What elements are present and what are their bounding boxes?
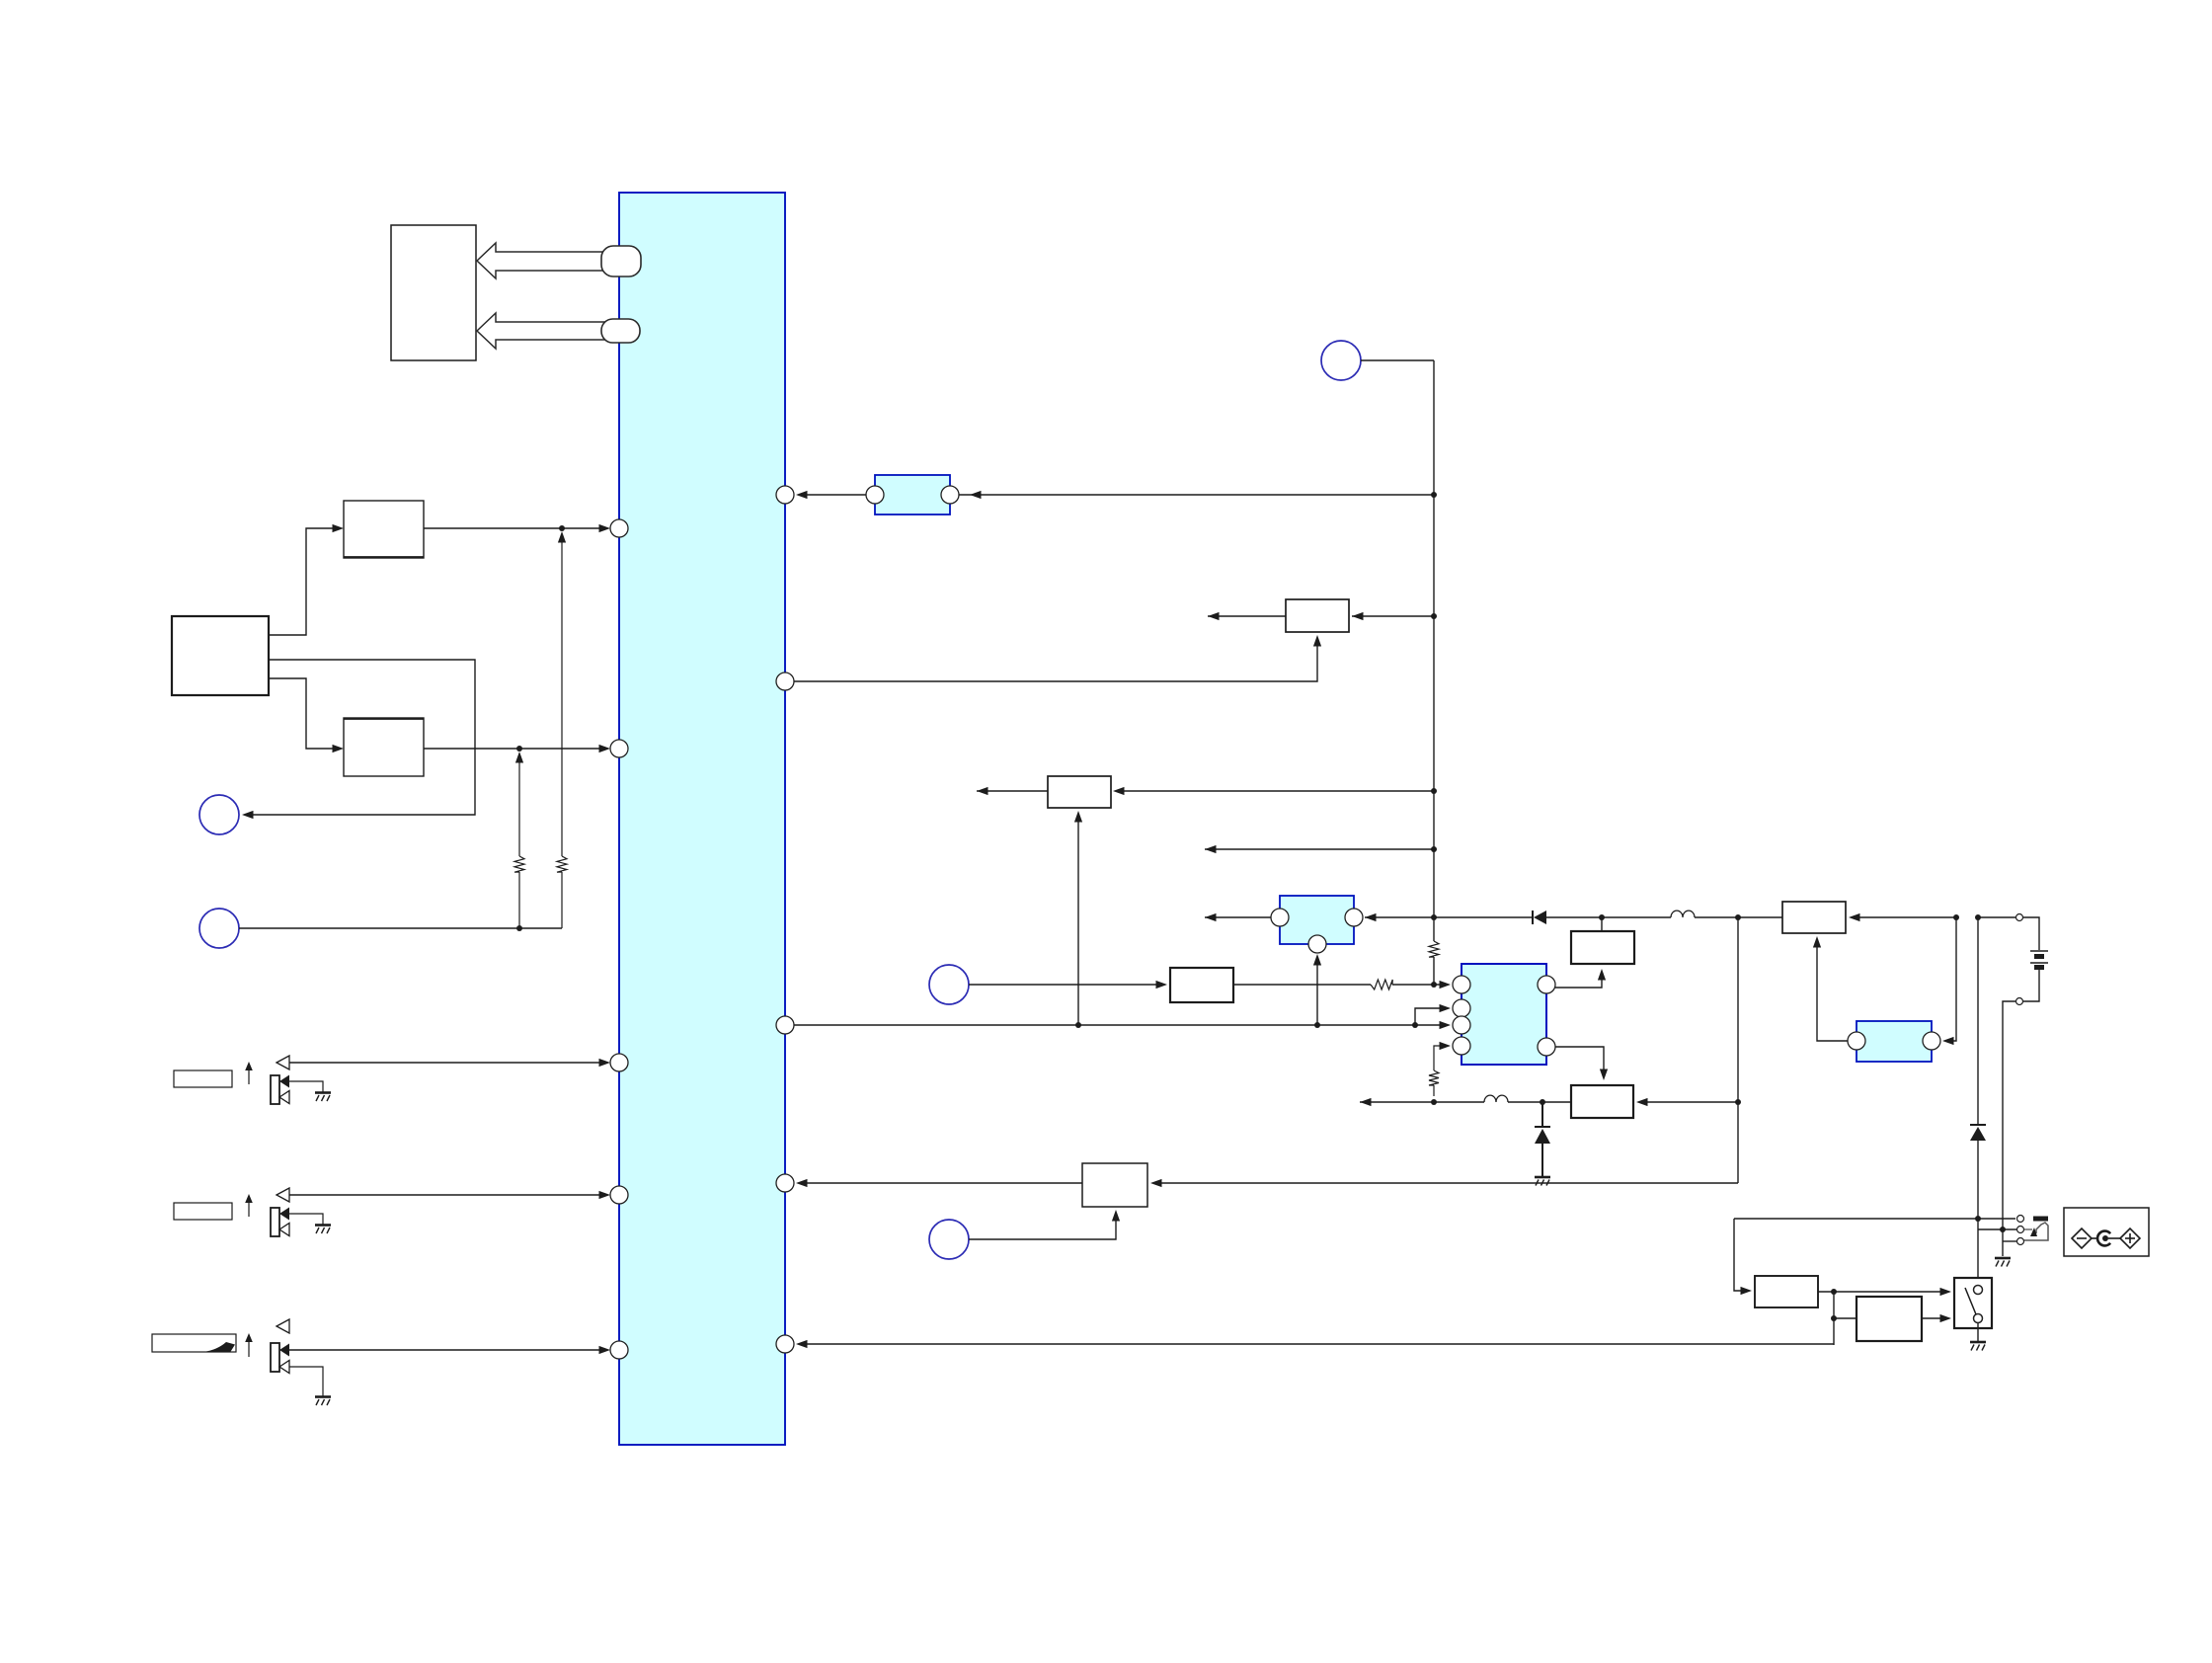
connector CN1 xyxy=(199,795,239,834)
box B10 (regulator) xyxy=(1782,902,1846,933)
IC left pin y=758 xyxy=(610,740,628,757)
wire B11 to switch xyxy=(1818,1291,1948,1293)
feed line to B7 xyxy=(1508,1101,1571,1103)
IC2 pin in3 xyxy=(1453,1016,1470,1034)
indicator box (speaker L label) xyxy=(174,1070,232,1087)
polarity plus diamond xyxy=(2120,1228,2140,1248)
hollow bus arrow (upper) xyxy=(477,243,614,278)
box B9 xyxy=(1082,1163,1147,1207)
node V2003/DC line xyxy=(1975,1216,1981,1222)
wire SP3 to ground xyxy=(289,1367,323,1396)
node trunk/B4 xyxy=(1431,613,1437,619)
X2 bottom pin xyxy=(1308,935,1326,953)
arrow out of X2 (left) xyxy=(1205,916,1271,918)
level arrow (beep) xyxy=(248,1337,250,1357)
wire B1 to IC pin xyxy=(424,527,607,529)
jack terminal 2 (switch) xyxy=(2017,1227,2024,1233)
level arrow (speaker R) xyxy=(248,1198,250,1217)
IC left pin y=1210 xyxy=(610,1186,628,1204)
node trunk/power xyxy=(1431,914,1437,920)
wire power line to X2 xyxy=(1365,916,1434,918)
arrow out of trunk (mute) xyxy=(1205,848,1434,850)
module X3 (filter) xyxy=(1856,1021,1932,1062)
speaker SP1 symbol xyxy=(276,1056,289,1069)
wire SP1 to IC pin xyxy=(289,1062,607,1064)
wire to battery terminal xyxy=(1978,916,2015,918)
power return line xyxy=(799,1343,1834,1345)
node V1981 top xyxy=(1953,914,1959,920)
wire B12 to switch xyxy=(1922,1317,1948,1319)
wire into B12 xyxy=(1834,1317,1856,1319)
branch to IC2 in2 xyxy=(1415,1008,1440,1025)
node V2028/jack xyxy=(2000,1227,2006,1232)
wire trunk to X1 xyxy=(959,494,1434,496)
level arrow (speaker L) xyxy=(248,1066,250,1084)
node audio/B5 xyxy=(1075,1022,1081,1028)
hollow bus arrow (lower) xyxy=(477,313,614,349)
jack terminal 3 (sleeve) xyxy=(2017,1238,2024,1245)
box B11 xyxy=(1755,1276,1818,1307)
wire switch to ground xyxy=(1977,1323,1979,1341)
wire B8 to IC2 in1 xyxy=(1233,984,1371,986)
wire V1760 to B7 xyxy=(1639,1101,1738,1103)
switch S1 box xyxy=(1954,1278,1992,1328)
power line inductor to B10 xyxy=(1695,916,1782,918)
DC line xyxy=(1734,1218,2015,1220)
box B5 xyxy=(1048,776,1111,808)
jack tip contact xyxy=(2033,1217,2048,1222)
pad P2 (rounded connector) xyxy=(601,319,640,343)
connector CN4 xyxy=(929,1220,969,1259)
resistor R1 (pull-up left) xyxy=(515,752,523,763)
wire IC pin to B4 bottom xyxy=(794,638,1317,681)
X1 left pin xyxy=(866,486,884,504)
box B2 xyxy=(172,616,269,695)
wire into B6 top xyxy=(1601,917,1603,931)
node feed/trunk2 xyxy=(1431,1099,1437,1105)
X3 right pin xyxy=(1923,1032,1940,1050)
wire battery minus xyxy=(2023,970,2039,1001)
IC right pin y=1361 xyxy=(776,1335,794,1353)
wire B5 bottom to audio line xyxy=(1077,814,1079,1025)
node V2003 top xyxy=(1975,914,1981,920)
jack terminal 3 wire xyxy=(2003,1240,2016,1242)
vertical bus V1760 xyxy=(1737,917,1739,1183)
wire terminal to V2028 xyxy=(2003,1001,2015,1256)
mechanism box xyxy=(391,225,476,360)
wire X1 to IC pin xyxy=(799,494,866,496)
connector CN2 xyxy=(199,909,239,948)
wire SP3 to IC pin xyxy=(289,1349,607,1351)
vertical line V2003 lower xyxy=(1977,1141,1979,1285)
inductor L2 xyxy=(1484,1095,1508,1102)
wire SP2 to IC pin xyxy=(289,1194,607,1196)
vertical line V2003 upper xyxy=(1977,917,1979,1125)
node trunk/X1 xyxy=(1431,492,1437,498)
ground (SP2) xyxy=(315,1224,331,1227)
wire CN5 to trunk xyxy=(1361,359,1434,361)
node trunk end xyxy=(1431,982,1437,988)
node trunk/B5 xyxy=(1431,788,1437,794)
connector CN5 xyxy=(1321,341,1361,380)
diode D2 to ground xyxy=(1541,1102,1543,1127)
wire CN3 to B8 xyxy=(969,984,1159,986)
node trunk/mute xyxy=(1431,846,1437,852)
ground (S1) xyxy=(1970,1341,1986,1344)
node B12 in xyxy=(1831,1315,1837,1321)
wire trunk to B4 xyxy=(1352,615,1434,617)
jack plug hook xyxy=(2024,1228,2032,1230)
DC jack J1 polarity box xyxy=(2064,1208,2149,1256)
X2 right pin xyxy=(1345,909,1363,926)
resistor R2 (pull-up right) xyxy=(558,531,566,543)
X1 right pin xyxy=(941,486,959,504)
wire B9 to IC pin xyxy=(799,1182,1082,1184)
node audio branch xyxy=(1412,1022,1418,1028)
speaker SP3 symbol xyxy=(276,1319,289,1333)
ground (SP3) xyxy=(315,1395,331,1398)
wire B2 to CN1 xyxy=(253,660,475,815)
IC2 pin out2 xyxy=(1538,1038,1555,1056)
speaker feed line xyxy=(1360,1101,1484,1103)
battery BT1 xyxy=(2030,950,2048,952)
IC2 pin in4 xyxy=(1453,1037,1470,1055)
node power/V1760 xyxy=(1735,914,1741,920)
X3 left pin xyxy=(1848,1032,1865,1050)
inductor L1 xyxy=(1671,911,1695,917)
box B8 xyxy=(1170,968,1233,1002)
arrow out of B5 (left) xyxy=(977,790,1048,792)
box B7 (regulator) xyxy=(1571,1085,1633,1118)
IC2 pin out1 xyxy=(1538,976,1555,993)
box B3 xyxy=(344,718,424,776)
wire X2 bottom xyxy=(1316,957,1318,1025)
indicator box (speaker R label) xyxy=(174,1203,232,1220)
wire IC2 out2 to B7 xyxy=(1555,1047,1604,1077)
IC2 pin in2 xyxy=(1453,999,1470,1017)
node V1760/feed xyxy=(1735,1099,1741,1105)
box B6 (regulator) xyxy=(1571,931,1634,964)
switch S1 contacts xyxy=(1974,1286,1983,1295)
audio line from IC pin xyxy=(794,1024,1442,1026)
node audio/X2 xyxy=(1314,1022,1320,1028)
wire DC line to B11 xyxy=(1734,1219,1749,1291)
jack terminal 1 (tip) xyxy=(2017,1216,2024,1223)
wire V1981 to X3 xyxy=(1945,917,1956,1041)
IC2 block (audio power amp) xyxy=(1461,964,1546,1065)
node on CN2 wire xyxy=(516,925,522,931)
wire B3 to IC pin xyxy=(424,748,607,750)
connector CN3 xyxy=(929,965,969,1004)
polarity link left xyxy=(2092,1237,2098,1239)
wire V1981 to B10 xyxy=(1852,916,1956,918)
wire terminal to battery xyxy=(2023,917,2039,950)
wire CN4 to B9 bottom xyxy=(969,1213,1116,1239)
IC left pin y=1076 xyxy=(610,1054,628,1071)
terminal (battery -) xyxy=(2016,998,2023,1005)
pad P1 (rounded connector) xyxy=(601,246,641,277)
wire B2 to B3 xyxy=(269,678,333,749)
indicator box (beep label) xyxy=(152,1334,236,1352)
node on B1 wire xyxy=(559,525,565,531)
terminal (battery +) xyxy=(2016,914,2023,921)
wire X3 to B10 bottom xyxy=(1817,939,1848,1041)
module X2 (detector) xyxy=(1280,896,1354,944)
IC left pin y=535 xyxy=(610,519,628,537)
diode D3 xyxy=(1970,1124,1986,1126)
IC2 pin in1 xyxy=(1453,976,1470,993)
X2 left pin xyxy=(1271,909,1289,926)
wire SP2 to ground xyxy=(289,1214,323,1225)
power line diode to inductor xyxy=(1546,916,1671,918)
wire SP1 to ground xyxy=(289,1081,323,1092)
wire CN2 bus xyxy=(239,927,562,929)
IC right pin y=1198 xyxy=(776,1174,794,1192)
ground (jack) xyxy=(1995,1257,2011,1260)
IC left pin y=1367 xyxy=(610,1341,628,1359)
polarity minus diamond xyxy=(2072,1228,2092,1248)
node power/B6 xyxy=(1599,914,1605,920)
polarity center pin symbol xyxy=(2097,1231,2110,1246)
node B11 out xyxy=(1831,1289,1837,1295)
jack terminal 2 wire xyxy=(1978,1228,2016,1230)
power line to diode xyxy=(1434,916,1533,918)
wire trunk to B5 xyxy=(1116,790,1434,792)
ground (SP1) xyxy=(315,1091,331,1094)
module X1 (filter) xyxy=(875,475,950,515)
node on B3 wire xyxy=(516,746,522,752)
IC right pin y=690 xyxy=(776,673,794,690)
box B4 xyxy=(1286,599,1349,632)
box B12 xyxy=(1856,1297,1922,1341)
IC right pin y=1038 xyxy=(776,1016,794,1034)
wire to IC2 in4 xyxy=(1434,1046,1442,1070)
wire V1760 to B9 xyxy=(1153,1182,1738,1184)
speaker SP2 symbol xyxy=(276,1188,289,1202)
wire down to B12 xyxy=(1833,1292,1835,1345)
main IC block (system controller) xyxy=(619,193,785,1445)
arrow out of B4 (left) xyxy=(1208,615,1286,617)
wire B2 to B1 xyxy=(269,528,333,635)
wire IC2 out1 to B6 xyxy=(1555,972,1602,988)
trunk vertical xyxy=(1433,360,1435,941)
node feed/diode xyxy=(1540,1099,1545,1105)
box B1 xyxy=(344,501,424,558)
IC right pin y=501 xyxy=(776,486,794,504)
diode D1 xyxy=(1532,911,1534,924)
ground (D2) xyxy=(1535,1176,1550,1179)
